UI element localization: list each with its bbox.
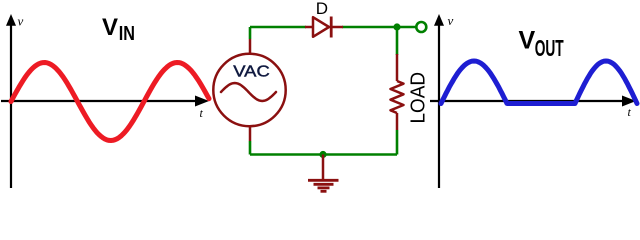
wire: resistor bottom green <box>396 130 399 155</box>
output terminal (open circle) <box>416 22 426 32</box>
ground bar 1 <box>308 179 339 182</box>
resistor LOAD zigzag <box>391 81 404 113</box>
output waveform (blue) <box>441 61 637 104</box>
resistor LOAD top lead <box>396 54 399 81</box>
input sine waveform (red) <box>11 63 209 141</box>
diode D anode lead <box>305 26 313 29</box>
svg-text:V: V <box>102 14 118 41</box>
VAC sine glyph <box>221 83 276 101</box>
ground bar 4 <box>321 190 327 193</box>
svg-text:V: V <box>519 26 536 54</box>
VAC source lead bottom <box>249 126 252 141</box>
svg-text:D: D <box>316 0 328 18</box>
svg-text:t: t <box>628 105 632 119</box>
svg-text:t: t <box>200 106 204 120</box>
diode D cathode lead <box>331 26 343 29</box>
svg-text:OUT: OUT <box>535 35 564 61</box>
svg-text:v: v <box>18 14 24 29</box>
left plot vertical axis <box>6 14 16 188</box>
wire: VAC bottom green <box>249 141 252 155</box>
VAC source lead top <box>249 39 252 54</box>
right plot vertical axis <box>434 14 444 188</box>
svg-text:IN: IN <box>119 22 135 45</box>
wire: top rail left segment <box>250 26 306 29</box>
wire: VAC top lead vertical green <box>249 27 252 39</box>
ground bar 2 <box>314 183 334 186</box>
wire: junction to output terminal <box>397 26 416 29</box>
wire: top rail right segment <box>342 26 397 29</box>
svg-text:LOAD: LOAD <box>407 72 430 124</box>
wire: resistor top green <box>396 27 399 55</box>
wire: bottom rail <box>250 153 397 156</box>
VAC source U1 circle <box>213 54 285 126</box>
node: junction dot top <box>393 23 400 30</box>
diode D triangle <box>313 17 329 37</box>
svg-text:v: v <box>448 13 454 28</box>
ground bar 3 <box>318 186 330 189</box>
right plot horizontal axis <box>430 96 636 107</box>
left plot horizontal axis <box>1 96 209 107</box>
ground stem <box>322 155 325 180</box>
svg-text:VAC: VAC <box>233 64 270 81</box>
diode D cathode bar <box>330 17 333 38</box>
node: junction dot bottom <box>319 151 326 158</box>
resistor LOAD bottom lead <box>396 113 399 130</box>
